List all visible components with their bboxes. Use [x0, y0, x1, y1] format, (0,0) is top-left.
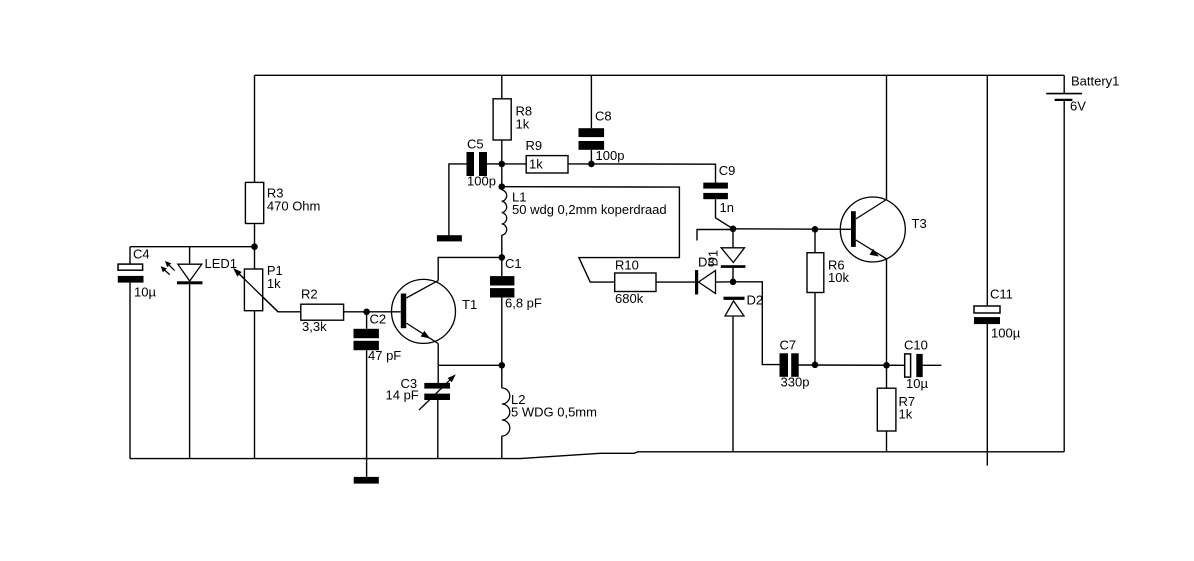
svg-text:T3: T3 — [912, 216, 927, 231]
wire P1 wiper to R2 — [239, 273, 301, 312]
capacitor C9 — [703, 163, 735, 215]
svg-text:C1: C1 — [505, 256, 522, 271]
capacitor C1 — [490, 256, 542, 311]
wire C10 right output stub — [923, 364, 942, 366]
wire C2 bottom lead to ground — [366, 350, 368, 477]
wire node to node L1 top — [501, 164, 503, 190]
svg-text:T1: T1 — [462, 297, 477, 312]
resistor R7 — [877, 388, 915, 431]
node R3/P1/C4 — [251, 243, 258, 250]
node T3 emitter/C10/R7 — [883, 362, 890, 369]
capacitor C8 — [579, 109, 625, 163]
svg-text:680k: 680k — [615, 291, 644, 306]
wire L1 bottom to C1 node — [501, 235, 503, 257]
wire C3 bottom to ground rail — [437, 400, 439, 459]
battery Battery1 — [1046, 74, 1119, 114]
svg-text:C10: C10 — [904, 338, 928, 353]
resistor R3 — [245, 182, 320, 223]
wire R2 to base node — [344, 311, 401, 313]
transistor T1 — [392, 279, 478, 343]
svg-text:C5: C5 — [467, 137, 484, 152]
wire emitter branch to C1 bottom node — [438, 364, 502, 366]
svg-text:5 WDG 0,5mm: 5 WDG 0,5mm — [511, 404, 597, 419]
diode D3 — [695, 255, 716, 295]
wire R10 to D3 — [656, 281, 695, 283]
capacitor C2 — [354, 312, 402, 364]
inductor L2 — [502, 388, 597, 436]
wire C11 top lead — [986, 75, 988, 306]
ground near C5 — [437, 235, 462, 241]
transistor T3 — [840, 197, 926, 262]
wire R9 left lead — [502, 163, 526, 165]
svg-text:330p: 330p — [781, 375, 810, 390]
svg-text:R2: R2 — [301, 287, 318, 302]
wire LED1 top lead — [189, 247, 191, 265]
inductor L1 — [502, 190, 667, 236]
svg-text:10µ: 10µ — [906, 376, 928, 391]
svg-text:3,3k: 3,3k — [302, 319, 327, 334]
svg-text:Battery1: Battery1 — [1071, 74, 1119, 89]
svg-text:C8: C8 — [595, 109, 612, 124]
wire R3 bottom to node — [254, 224, 256, 247]
svg-text:100p: 100p — [596, 148, 625, 163]
svg-text:C4: C4 — [133, 247, 150, 262]
svg-text:10k: 10k — [828, 270, 849, 285]
resistor R10 — [615, 258, 656, 306]
wire diode node to T3 base — [733, 228, 851, 231]
node L1 bottom/C1/T1 collector — [499, 254, 506, 261]
wire D3 to node — [716, 281, 734, 283]
wire feedback from L1 node — [502, 187, 680, 282]
wire left supply drop to R3 — [254, 75, 256, 182]
wire C9 bottom diagonal to diode node — [716, 199, 734, 229]
wire battery top lead — [1063, 75, 1065, 93]
wire LED1 bottom lead — [189, 284, 191, 458]
capacitor C4 — [118, 247, 157, 300]
wire C8 bottom lead — [590, 150, 592, 164]
wire T3 collector up to rail — [886, 75, 888, 199]
node L1 top/feedback — [499, 183, 506, 190]
resistor R8 — [493, 99, 532, 140]
svg-text:1k: 1k — [267, 276, 281, 291]
svg-text:C9: C9 — [719, 163, 736, 178]
wire C1 top lead — [501, 257, 503, 276]
wire L2 top lead — [501, 365, 503, 388]
node C1/L2/T1 emitter branch — [499, 362, 506, 369]
svg-text:47 pF: 47 pF — [368, 348, 401, 363]
wire C5 right lead — [487, 163, 502, 165]
wire node to C9 corner — [591, 164, 715, 183]
svg-text:D1: D1 — [705, 250, 720, 267]
wire R8 bottom to node — [501, 140, 503, 164]
node R9/C8/C9 — [588, 161, 595, 168]
svg-text:50 wdg 0,2mm koperdraad: 50 wdg 0,2mm koperdraad — [512, 202, 667, 217]
wire R7 top lead — [886, 365, 888, 388]
wire T1 collector up and to L1 node — [438, 257, 502, 280]
svg-text:6,8 pF: 6,8 pF — [505, 296, 542, 311]
svg-text:14 pF: 14 pF — [386, 388, 419, 403]
svg-text:6V: 6V — [1070, 99, 1086, 114]
wire T3 emitter down to node — [886, 259, 888, 366]
svg-text:C11: C11 — [990, 287, 1013, 302]
wire C7 right to output node — [799, 364, 905, 366]
resistor R9 — [526, 138, 569, 173]
svg-text:R9: R9 — [526, 138, 543, 153]
wire C8 top lead — [590, 75, 592, 128]
svg-text:470 Ohm: 470 Ohm — [267, 198, 320, 213]
node C5/R8/R9 — [499, 161, 506, 168]
wire C1 bottom lead — [501, 298, 503, 366]
wire top supply rail — [255, 74, 1065, 76]
svg-text:D2: D2 — [747, 293, 764, 308]
wire node to C4 top — [130, 246, 255, 248]
wire D1 bottom lead to node — [732, 268, 734, 282]
variable capacitor C3 — [386, 374, 456, 410]
wire L2 bottom to ground rail — [501, 436, 503, 459]
wire C11 bottom lead past rail — [986, 324, 988, 466]
diode D2 — [724, 293, 764, 316]
svg-text:1k: 1k — [529, 157, 543, 172]
node R6 bottom — [812, 362, 819, 369]
svg-text:1k: 1k — [516, 117, 530, 132]
resistor R6 — [807, 253, 849, 293]
node junction dots — [251, 161, 890, 369]
wire D1 top lead — [732, 229, 734, 248]
diode D1 — [705, 248, 745, 268]
capacitor C11 — [974, 287, 1021, 341]
wire R7 bottom to ground rail — [886, 431, 888, 452]
wire battery bottom lead to ground rail — [1063, 100, 1065, 452]
wire D2 bottom to ground rail — [732, 316, 734, 452]
svg-text:10µ: 10µ — [134, 284, 156, 299]
LED LED1 — [161, 256, 237, 284]
svg-text:LED1: LED1 — [205, 256, 238, 271]
svg-text:1k: 1k — [899, 407, 913, 422]
resistor R2 — [301, 287, 344, 334]
svg-text:C2: C2 — [370, 312, 387, 327]
potentiometer P1 — [233, 263, 283, 312]
wire C4 bottom lead — [129, 283, 131, 459]
svg-text:1n: 1n — [720, 200, 734, 215]
capacitor C7 — [780, 338, 810, 390]
wire P1 bottom to ground rail — [254, 311, 256, 459]
svg-text:100p: 100p — [467, 174, 496, 189]
capacitor C5 — [467, 137, 496, 189]
wire R8 top lead — [501, 75, 503, 99]
node R6 top — [812, 226, 819, 233]
ground below C2 — [354, 477, 379, 484]
wire C4 top lead — [129, 247, 131, 264]
svg-text:C7: C7 — [780, 338, 797, 353]
wire R9 right lead — [568, 163, 591, 165]
capacitor C10 — [904, 338, 928, 391]
wire R6 bottom lead — [814, 293, 816, 365]
wire R6 top lead — [814, 229, 816, 252]
wire C2 top lead — [366, 312, 368, 329]
node R2/C2/T1 base — [363, 309, 370, 316]
wire stub near D1 — [697, 230, 733, 241]
wire bottom ground rail — [130, 452, 1064, 459]
svg-text:100µ: 100µ — [991, 326, 1021, 341]
wire T1 emitter down to C3 — [437, 344, 439, 383]
wire node right and down to C7 — [733, 282, 780, 365]
svg-text:R10: R10 — [615, 258, 639, 273]
node D1/D2/D3 — [730, 279, 737, 286]
node C9/D1/T3 base — [730, 226, 737, 233]
wire node to P1 top — [254, 247, 256, 269]
wire C5 left lead and ground drop — [449, 164, 467, 235]
